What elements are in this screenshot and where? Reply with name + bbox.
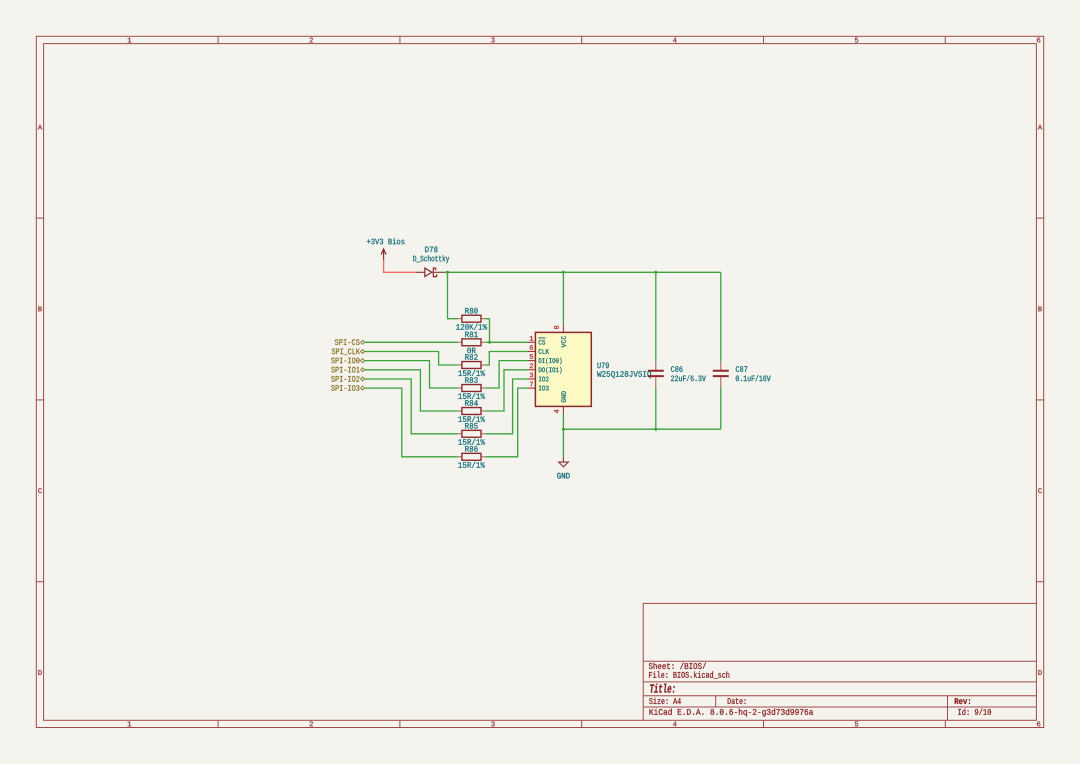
wire SPI-IO0 to R83 bbox=[365, 361, 458, 388]
wire R83 to pin 5 bbox=[485, 361, 528, 388]
wire R80 to CS net bbox=[485, 319, 489, 343]
pin 8 VCC bbox=[554, 325, 566, 348]
pin 3 IO2 bbox=[528, 373, 549, 382]
pin 1 CS bbox=[528, 336, 546, 345]
junction node R80/R81 bbox=[488, 341, 491, 344]
hierarchical label SPI-CS bbox=[335, 339, 365, 345]
junction C86 top bbox=[654, 271, 657, 274]
resistor R80 bbox=[456, 308, 487, 330]
resistor R85 bbox=[458, 423, 486, 445]
hierarchical label SPI-IO1 bbox=[331, 367, 364, 373]
hierarchical label SPI-IO3 bbox=[331, 385, 364, 391]
pin 2 DO(IO1) bbox=[528, 363, 562, 373]
wire R84 to pin 2 bbox=[485, 370, 528, 411]
wire SPI_CLK to R82 bbox=[365, 352, 458, 366]
wire SPI-IO2 to R85 bbox=[365, 379, 458, 434]
capacitor C86 bbox=[648, 272, 706, 429]
wire top rail bbox=[445, 271, 721, 273]
wire bottom rail bbox=[563, 428, 720, 430]
title block bbox=[643, 603, 1036, 720]
power symbol +3V3 Bios bbox=[367, 238, 405, 260]
pin 7 IO3 bbox=[528, 382, 549, 391]
wire R81 to pin 1 bbox=[485, 341, 528, 343]
junction GND node bbox=[562, 428, 565, 431]
hierarchical label SPI-IO2 bbox=[331, 376, 364, 382]
capacitor C87 bbox=[713, 272, 771, 429]
wire SPI-IO3 to R86 bbox=[365, 388, 458, 457]
wire IC GND pin down bbox=[562, 414, 564, 429]
hierarchical label SPI-IO0 bbox=[331, 358, 364, 364]
wire (red) power to diode bbox=[384, 260, 416, 273]
resistor R84 bbox=[458, 400, 486, 422]
diode D78 bbox=[413, 247, 449, 277]
wire R86 to pin 7 bbox=[485, 388, 528, 457]
junction VCC rail bbox=[562, 271, 565, 274]
resistor R83 bbox=[458, 377, 486, 399]
pin 4 GND bbox=[554, 391, 566, 414]
wire SPI-IO1 to R84 bbox=[365, 370, 458, 411]
wire R82 to pin 6 bbox=[485, 352, 528, 366]
wire down to ground symbol bbox=[562, 429, 564, 457]
wire R85 to pin 3 bbox=[485, 379, 528, 434]
hierarchical label SPI_CLK bbox=[332, 349, 365, 356]
junction C86 bottom bbox=[654, 428, 657, 431]
wire SPI-CS to R81 bbox=[365, 341, 458, 343]
wire VCC rail to pin 8 bbox=[562, 272, 564, 325]
pin 6 CLK bbox=[528, 345, 549, 354]
junction after diode bbox=[446, 271, 449, 274]
ground bbox=[557, 457, 570, 478]
IC U79 body bbox=[535, 332, 651, 406]
resistor R82 bbox=[458, 354, 486, 376]
resistor R86 bbox=[458, 446, 486, 468]
resistor R81 bbox=[458, 332, 486, 354]
pin 5 DI(IO0) bbox=[528, 354, 562, 364]
wire rail down to R80 bbox=[448, 272, 458, 318]
